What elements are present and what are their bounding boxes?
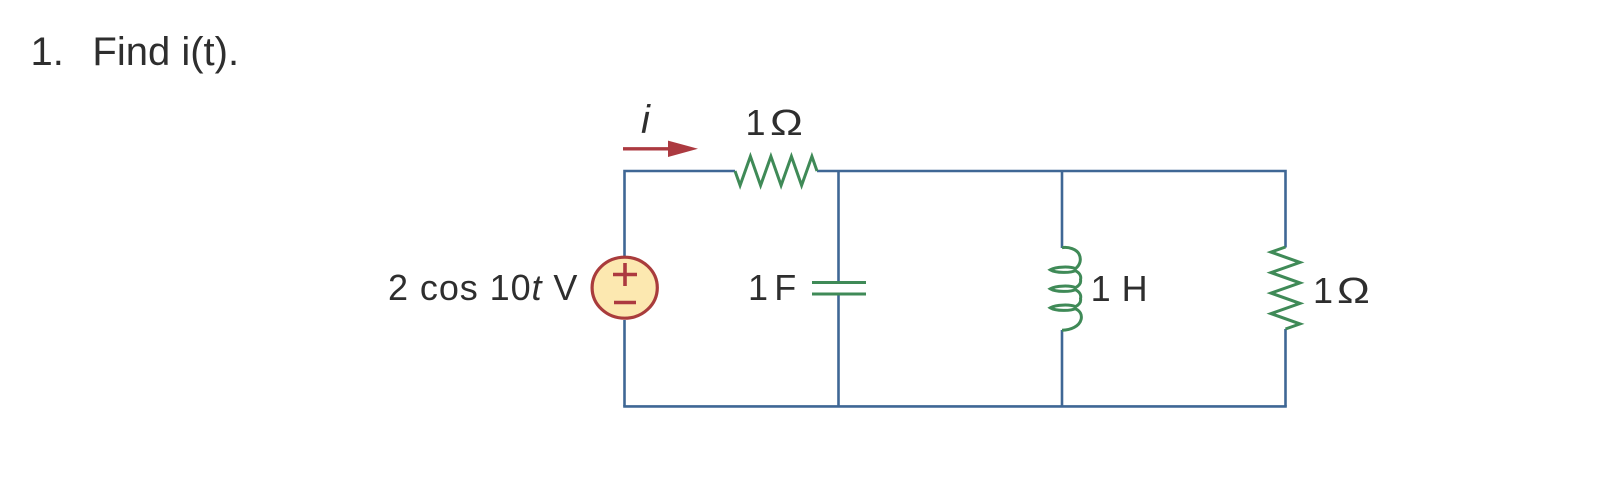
title text [92, 30, 239, 75]
title number [31, 30, 64, 75]
wire inductor branch upper [1061, 171, 1064, 248]
label 1 F [748, 267, 796, 309]
label 1 ohm top [746, 102, 797, 144]
wire bottom horizontal [623, 405, 1287, 408]
current arrow shaft [623, 147, 672, 150]
wire capacitor branch upper [837, 171, 840, 283]
label 1 H [1091, 268, 1148, 310]
label source value [388, 267, 578, 309]
label 1 ohm right [1313, 270, 1363, 312]
resistor R2 1ohm vertical zigzag [1271, 247, 1300, 329]
voltage source V circle [592, 257, 657, 318]
current arrow head [668, 141, 698, 157]
label i [641, 98, 650, 143]
capacitor C 1F top plate [812, 281, 866, 284]
minus sign [614, 301, 636, 305]
resistor R1 1ohm horizontal zigzag [735, 156, 817, 185]
wire top-middle horizontal and right corner [817, 171, 1286, 248]
wire capacitor branch lower [837, 293, 840, 406]
wire right branch lower [1284, 329, 1287, 406]
wire top-left horizontal [625, 171, 736, 256]
inductor L 1H coil [1050, 247, 1081, 330]
wire inductor branch lower [1061, 330, 1064, 406]
capacitor C 1F bottom plate [812, 293, 866, 296]
wire left-bottom vertical [623, 320, 626, 406]
plus sign [613, 273, 637, 277]
